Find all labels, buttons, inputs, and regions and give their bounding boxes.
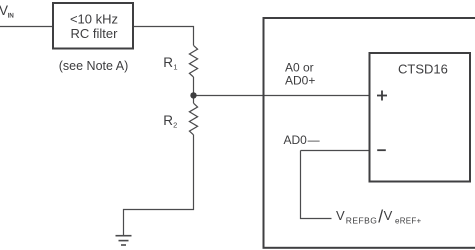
svg-text:IN: IN xyxy=(8,14,14,20)
svg-text:(see Note A): (see Note A) xyxy=(59,59,128,73)
svg-text:<10 kHz: <10 kHz xyxy=(70,12,118,27)
svg-text:V: V xyxy=(336,208,345,223)
svg-text:R: R xyxy=(163,55,173,70)
svg-text:AD0+: AD0+ xyxy=(285,73,315,87)
svg-text:1: 1 xyxy=(173,62,177,71)
svg-text:R: R xyxy=(163,113,173,128)
svg-text:A0 or: A0 or xyxy=(285,60,314,74)
svg-text:CTSD16: CTSD16 xyxy=(398,61,448,76)
svg-text:eREF+: eREF+ xyxy=(395,217,421,226)
svg-text:RC filter: RC filter xyxy=(71,26,119,41)
svg-text:V: V xyxy=(384,208,393,223)
svg-text:2: 2 xyxy=(173,120,177,129)
svg-text:AD0—: AD0— xyxy=(284,133,320,147)
svg-text:REFBG: REFBG xyxy=(346,216,378,226)
svg-text:/: / xyxy=(378,207,383,227)
